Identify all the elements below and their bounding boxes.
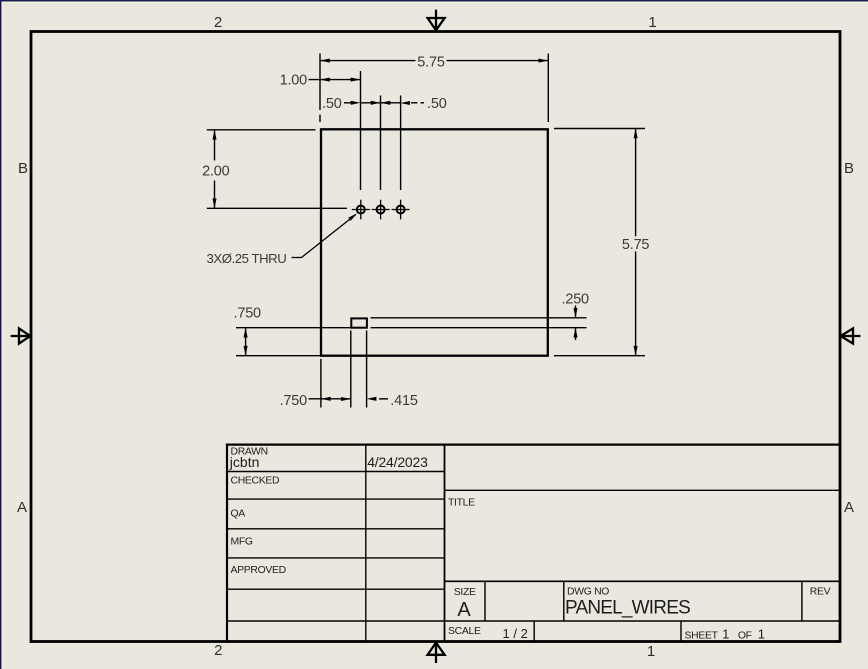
svg-text:SCALE: SCALE xyxy=(448,626,481,637)
scale row dividers xyxy=(534,621,681,641)
dimension .750 horizontal bottom xyxy=(309,331,351,408)
svg-text:.50: .50 xyxy=(322,96,342,112)
svg-text:4/24/2023: 4/24/2023 xyxy=(367,454,428,470)
center arrow bottom xyxy=(428,643,445,663)
title block right row lines xyxy=(227,490,840,621)
svg-text:A: A xyxy=(844,499,854,516)
title block outer lines xyxy=(226,444,840,642)
svg-text:2.00: 2.00 xyxy=(202,163,230,179)
svg-text:MFG: MFG xyxy=(231,537,253,548)
dimension 2.00 xyxy=(207,130,347,208)
panel outline xyxy=(321,129,548,355)
svg-text:B: B xyxy=(18,160,28,177)
dimension .50 left xyxy=(344,96,381,191)
svg-text:A: A xyxy=(457,599,471,621)
svg-text:jcbtn: jcbtn xyxy=(229,454,260,470)
window edge navy left xyxy=(0,0,2,669)
svg-text:.415: .415 xyxy=(390,393,418,409)
svg-text:.50: .50 xyxy=(427,96,447,112)
dimension .250 xyxy=(371,306,587,341)
svg-text:.750: .750 xyxy=(280,393,308,409)
svg-text:A: A xyxy=(17,499,27,516)
svg-text:1.00: 1.00 xyxy=(280,72,308,88)
window edge highlight top xyxy=(2,2,868,3)
leader note 3X holes xyxy=(292,215,356,258)
svg-text:REV: REV xyxy=(810,587,831,598)
svg-text:QA: QA xyxy=(231,508,246,519)
svg-text:CHECKED: CHECKED xyxy=(231,475,280,486)
svg-text:PANEL_WIRES: PANEL_WIRES xyxy=(565,598,690,619)
dimension .750 vertical left xyxy=(236,328,351,356)
title block column divider xyxy=(365,445,367,641)
svg-text:1: 1 xyxy=(647,643,655,660)
center arrow left xyxy=(11,328,31,343)
window edge highlight left xyxy=(2,2,3,669)
dimension .415 xyxy=(367,331,388,408)
svg-text:B: B xyxy=(844,160,854,177)
svg-text:1 / 2: 1 / 2 xyxy=(503,626,528,641)
hole H3 xyxy=(392,200,410,220)
center arrow top xyxy=(428,10,445,31)
title block row lines left xyxy=(227,472,445,590)
svg-text:.750: .750 xyxy=(234,306,262,322)
svg-text:APPROVED: APPROVED xyxy=(231,565,286,576)
svg-text:1: 1 xyxy=(648,14,656,31)
svg-text:5.75: 5.75 xyxy=(417,54,445,70)
svg-text:TITLE: TITLE xyxy=(448,497,475,508)
title block left/right divider xyxy=(444,445,446,641)
svg-text:2: 2 xyxy=(214,642,222,659)
svg-text:SIZE: SIZE xyxy=(454,587,476,598)
svg-text:.250: .250 xyxy=(562,291,590,307)
dimension 1.00 xyxy=(309,71,361,190)
size row dividers xyxy=(485,581,802,621)
svg-text:5.75: 5.75 xyxy=(622,237,650,253)
svg-text:3XØ.25 THRU: 3XØ.25 THRU xyxy=(207,251,287,266)
slot cutout xyxy=(351,318,367,327)
dimension .50 right xyxy=(381,96,425,191)
dimension 5.75 vertical right xyxy=(554,129,645,356)
hole H1 xyxy=(352,200,370,220)
hole H2 xyxy=(372,200,390,220)
svg-text:2: 2 xyxy=(214,14,222,31)
svg-text:DWG NO: DWG NO xyxy=(567,587,609,598)
window edge navy top xyxy=(0,0,868,2)
center arrow right xyxy=(841,328,861,343)
dimension 5.75 horizontal top xyxy=(320,54,548,123)
